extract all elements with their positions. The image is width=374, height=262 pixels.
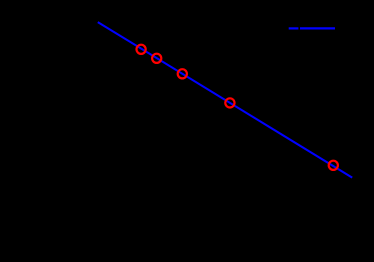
data point marker 5 [329,161,338,170]
data point marker 1 [137,45,146,54]
legend line dash segment 2 [300,27,335,29]
fit line [98,22,352,178]
data point marker 2 [152,54,161,63]
data point marker 3 [178,69,187,78]
data point marker 4 [225,98,234,107]
legend line dash segment 1 [289,27,299,29]
